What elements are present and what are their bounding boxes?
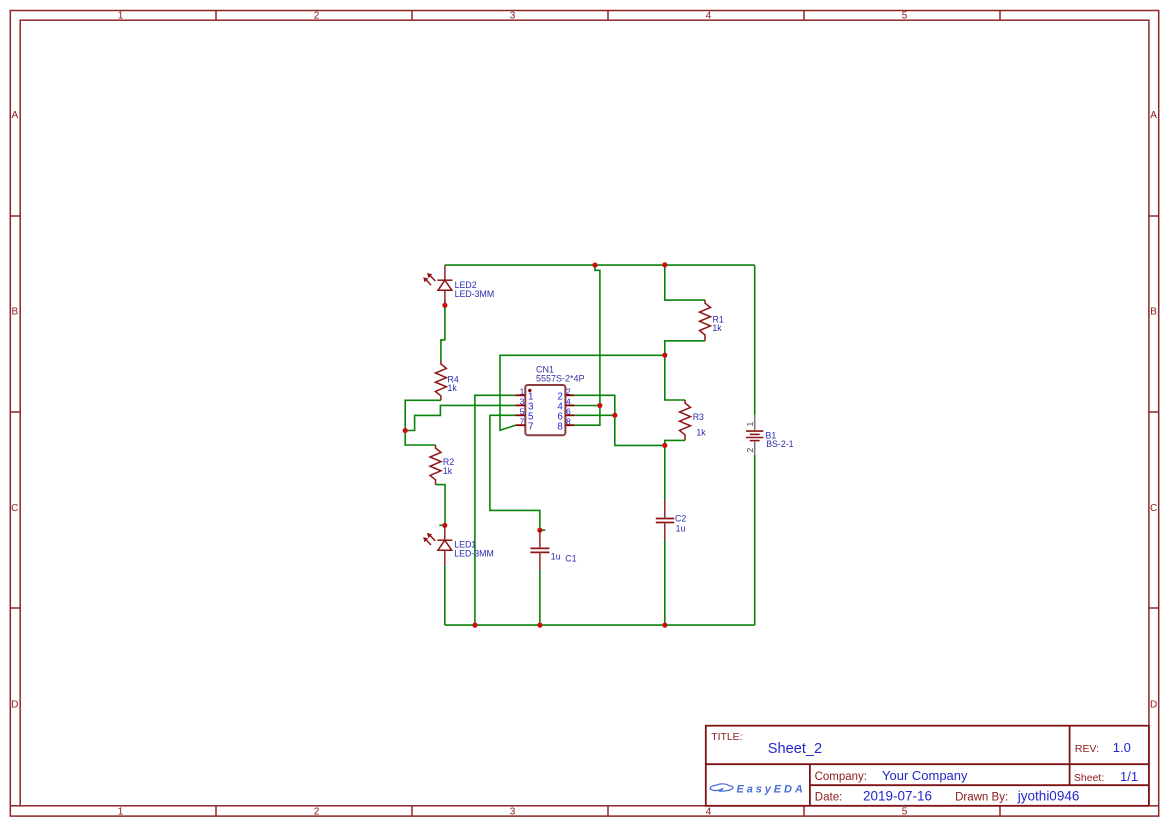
svg-text:C1: C1 <box>565 554 576 564</box>
svg-text:C: C <box>11 503 18 514</box>
svg-text:5: 5 <box>902 11 908 22</box>
svg-text:BS-2-1: BS-2-1 <box>766 439 793 449</box>
svg-text:Sheet:: Sheet: <box>1074 772 1104 784</box>
svg-text:EasyEDA: EasyEDA <box>737 784 806 796</box>
svg-text:3: 3 <box>520 397 525 407</box>
svg-text:5557S-2*4P: 5557S-2*4P <box>536 373 585 383</box>
svg-text:Your Company: Your Company <box>882 768 968 783</box>
svg-text:1: 1 <box>520 387 525 397</box>
svg-text:5: 5 <box>520 407 525 417</box>
svg-text:1: 1 <box>745 422 755 427</box>
svg-text:A: A <box>1150 110 1157 121</box>
svg-text:1/1: 1/1 <box>1120 769 1138 784</box>
svg-text:REV:: REV: <box>1075 743 1099 755</box>
svg-text:A: A <box>11 110 18 121</box>
svg-text:3: 3 <box>510 11 516 22</box>
svg-text:C: C <box>1150 503 1157 514</box>
svg-text:B: B <box>11 307 18 318</box>
svg-text:Date:: Date: <box>815 792 843 804</box>
svg-text:4: 4 <box>566 397 571 407</box>
svg-text:2: 2 <box>314 806 320 817</box>
svg-text:1k: 1k <box>712 323 722 333</box>
svg-text:7: 7 <box>520 417 525 427</box>
svg-text:1.0: 1.0 <box>1113 740 1131 755</box>
svg-text:1: 1 <box>118 11 124 22</box>
svg-text:4: 4 <box>706 11 712 22</box>
svg-text:1u: 1u <box>676 523 686 533</box>
svg-text:D: D <box>11 699 18 710</box>
svg-text:2019-07-16: 2019-07-16 <box>863 789 932 804</box>
svg-text:2: 2 <box>566 387 571 397</box>
svg-text:2: 2 <box>745 448 755 453</box>
svg-text:5: 5 <box>902 806 908 817</box>
svg-text:LED-3MM: LED-3MM <box>454 548 494 558</box>
svg-text:R3: R3 <box>693 412 704 422</box>
svg-text:D: D <box>1150 699 1157 710</box>
svg-text:7: 7 <box>528 421 533 432</box>
svg-text:1u: 1u <box>551 552 561 562</box>
svg-text:2: 2 <box>314 11 320 22</box>
svg-text:Drawn By:: Drawn By: <box>955 792 1008 804</box>
svg-text:8: 8 <box>557 421 563 432</box>
svg-text:6: 6 <box>566 407 571 417</box>
svg-text:1k: 1k <box>443 466 453 476</box>
svg-text:jyothi0946: jyothi0946 <box>1017 789 1080 804</box>
svg-text:1k: 1k <box>696 427 706 437</box>
svg-text:1k: 1k <box>448 383 458 393</box>
svg-text:TITLE:: TITLE: <box>711 732 742 743</box>
svg-text:1: 1 <box>118 806 124 817</box>
svg-text:8: 8 <box>566 417 571 427</box>
svg-text:LED-3MM: LED-3MM <box>455 289 495 299</box>
svg-text:4: 4 <box>706 806 712 817</box>
svg-text:B: B <box>1150 307 1157 318</box>
svg-text:C2: C2 <box>675 514 686 524</box>
svg-text:Sheet_2: Sheet_2 <box>768 741 822 757</box>
svg-text:Company:: Company: <box>815 771 867 783</box>
svg-text:3: 3 <box>510 806 516 817</box>
